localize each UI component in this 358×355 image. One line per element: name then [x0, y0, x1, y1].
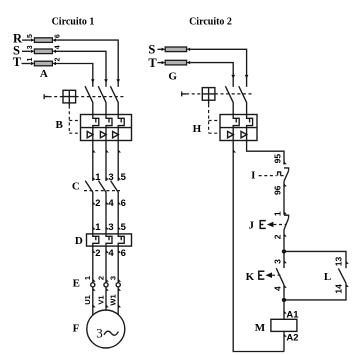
svg-text:5: 5 [121, 172, 127, 183]
wire T fuse to breaker H left pole [190, 63, 233, 87]
breaker H magnetic element pole 2 [241, 128, 247, 141]
svg-text:I: I [251, 169, 255, 181]
svg-text:B: B [56, 119, 64, 131]
terminal E contact 2 [104, 279, 109, 291]
svg-text:96: 96 [273, 185, 283, 195]
breaker B thermal element pole 2 [106, 115, 112, 128]
svg-text:W1: W1 [109, 294, 118, 305]
contactor C pin 6 [118, 198, 126, 209]
breaker H linkage dashed down [209, 104, 220, 133]
breaker H actuator box [202, 88, 215, 105]
thermal relay D pin 3 [106, 222, 114, 233]
breaker B body [81, 115, 132, 141]
thermal relay D pin 1 [93, 222, 101, 233]
fuse A pole T [31, 61, 56, 66]
wire H right pole to contact I [247, 141, 287, 165]
svg-text:D: D [75, 235, 83, 247]
fuse G pole T [162, 60, 191, 65]
node junction top [282, 249, 286, 253]
svg-text:95: 95 [273, 154, 283, 164]
svg-text:1: 1 [95, 222, 101, 233]
svg-text:A2: A2 [286, 332, 298, 343]
wire S fuse to breaker H right pole [190, 49, 246, 87]
thermal relay D body [87, 234, 132, 246]
svg-text:H: H [193, 123, 202, 135]
thermal relay D pin 2 [93, 246, 101, 283]
wire arrows into breaker H [231, 75, 248, 79]
coil M [271, 319, 297, 331]
breaker H magnetic element pole 1 [228, 128, 234, 141]
breaker B linkage dashed down [69, 106, 80, 134]
svg-text:3: 3 [109, 276, 118, 280]
wire B to C pole 1 [93, 141, 96, 182]
wire S to fuse [22, 50, 31, 52]
svg-text:G: G [168, 70, 177, 82]
svg-text:14: 14 [334, 284, 344, 294]
svg-text:2: 2 [273, 234, 283, 239]
motor terminal W1 [109, 287, 121, 315]
stop button J pin 1 [273, 211, 287, 216]
start button K dashed link [272, 274, 281, 276]
svg-text:A: A [40, 68, 48, 80]
svg-text:C: C [72, 181, 80, 193]
terminal E contact 3 [116, 279, 121, 291]
svg-text:2: 2 [95, 198, 100, 209]
terminal E contact 1 [91, 279, 96, 291]
fuse A pole R [31, 38, 56, 43]
thermal contact I NC contact [284, 168, 289, 181]
breaker B operator handle [44, 94, 48, 99]
start button K pin 3 [272, 259, 287, 264]
stop button J NC contact [284, 215, 289, 229]
fuse G pole S [162, 47, 191, 52]
svg-text:13: 13 [334, 257, 344, 267]
wire S fuse to breaker pole 2 [56, 51, 106, 87]
thermal relay D heater pole 1 [93, 234, 99, 246]
wire R fuse to breaker pole 3 [56, 40, 118, 87]
start button K NO contact [276, 268, 284, 285]
node junction bottom [282, 298, 286, 302]
breaker B contact pole 3 [110, 86, 118, 114]
svg-text:3: 3 [96, 325, 103, 340]
wire B to C pole 2 [106, 141, 109, 182]
thermal relay D pin 6 [118, 246, 126, 283]
breaker H linkage dashed left [186, 93, 202, 95]
start button K actuator [259, 271, 272, 279]
stop button J dashed link [273, 224, 286, 226]
thermal contact I trip dashed [259, 175, 277, 177]
svg-text:2: 2 [95, 248, 100, 259]
svg-text:5: 5 [121, 222, 127, 233]
svg-text:V1: V1 [96, 295, 105, 304]
svg-text:M: M [255, 322, 266, 334]
contactor C pin 2 [93, 198, 101, 209]
motor terminal U1 [83, 287, 95, 315]
stop button J pin 2 [273, 230, 287, 250]
coil M pin A1 [284, 300, 299, 321]
breaker B magnetic element pole 1 [87, 128, 93, 141]
svg-text:T: T [148, 56, 157, 70]
svg-text:F: F [73, 322, 80, 334]
svg-text:E: E [73, 277, 80, 289]
svg-text:4: 4 [273, 286, 283, 291]
thermal relay D heater pole 2 [106, 234, 112, 246]
aux contact L NO contact [338, 268, 346, 283]
svg-text:1: 1 [273, 211, 283, 216]
breaker H thermal element pole 2 [247, 115, 253, 128]
fuse A pole S [31, 49, 56, 54]
coil M pin A2 [284, 331, 299, 351]
stop button J actuator [260, 221, 273, 229]
svg-text:3: 3 [27, 45, 34, 49]
svg-text:3: 3 [272, 259, 282, 264]
breaker B contact pole 2 [98, 86, 106, 114]
svg-text:5: 5 [27, 34, 34, 38]
contactor C pin 4 [106, 198, 114, 209]
svg-text:J: J [248, 219, 254, 231]
breaker H contact pole 2 [239, 86, 247, 114]
wire S to fuse G [158, 48, 163, 50]
breaker H linkage dashed right [215, 93, 253, 95]
svg-text:K: K [246, 271, 255, 283]
thermal contact I trip dashed right [281, 175, 287, 177]
breaker B linkage dashed [49, 96, 63, 98]
svg-text:4: 4 [108, 248, 114, 259]
wire arrows into breaker B [91, 79, 120, 83]
thermal relay D pin 5 [118, 222, 126, 233]
wire T fuse to breaker pole 1 [56, 64, 93, 87]
svg-text:T: T [13, 55, 22, 69]
thermal contact I pin 96 [273, 181, 287, 215]
thermal relay D heater pole 3 [118, 234, 124, 246]
breaker B thermal element pole 1 [93, 115, 99, 128]
motor terminal V1 [96, 287, 108, 310]
breaker H thermal element pole 1 [233, 115, 239, 128]
svg-text:4: 4 [108, 198, 114, 209]
breaker B actuator box [63, 90, 76, 105]
svg-text:6: 6 [121, 248, 126, 259]
breaker B magnetic element pole 2 [100, 128, 106, 141]
wire H left pole down left rail [233, 141, 284, 352]
wire B to C pole 3 [118, 141, 121, 182]
breaker B linkage dashed right [76, 96, 125, 98]
svg-text:4: 4 [55, 45, 62, 49]
aux contact L pin 13 [334, 257, 349, 267]
breaker H body [220, 115, 257, 141]
svg-text:1: 1 [27, 57, 34, 61]
contactor C linkage dashed [84, 190, 120, 192]
svg-text:U1: U1 [83, 295, 92, 305]
wire junction to aux contact L [284, 251, 346, 268]
breaker B thermal element pole 3 [118, 115, 124, 128]
svg-text:S: S [148, 43, 155, 57]
breaker B magnetic element pole 3 [113, 128, 119, 141]
svg-text:Circuito 1: Circuito 1 [52, 16, 95, 27]
motor F [87, 310, 125, 348]
svg-text:6: 6 [121, 198, 126, 209]
svg-text:3: 3 [108, 222, 113, 233]
aux contact L pin 14 [284, 283, 349, 300]
thermal contact I trip bump [278, 172, 281, 176]
svg-text:L: L [324, 271, 331, 283]
svg-text:1: 1 [83, 276, 92, 280]
contactor C contact pole 3 [111, 181, 119, 234]
wire T to fuse G [158, 62, 163, 64]
breaker H contact pole 1 [225, 86, 233, 114]
wire junction to start button K [283, 251, 285, 268]
contactor C contact pole 1 [85, 181, 93, 234]
breaker B contact pole 1 [85, 86, 93, 114]
thermal relay D pin 4 [106, 246, 114, 283]
svg-text:2: 2 [55, 57, 62, 61]
svg-text:2: 2 [96, 276, 105, 280]
svg-text:6: 6 [55, 34, 62, 38]
wire T to fuse [22, 63, 31, 65]
start button K pin 4 [273, 285, 287, 298]
wire R to fuse [22, 39, 31, 41]
svg-text:Circuito 2: Circuito 2 [189, 16, 232, 27]
contactor C contact pole 2 [98, 181, 106, 234]
breaker H operator handle [182, 92, 186, 97]
